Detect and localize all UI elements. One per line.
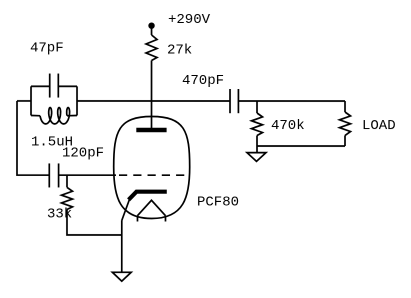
svg-text:470pF: 470pF — [182, 73, 224, 89]
svg-text:33k: 33k — [47, 207, 72, 223]
svg-text:120pF: 120pF — [62, 145, 104, 161]
svg-text:47pF: 47pF — [30, 41, 64, 57]
svg-text:27k: 27k — [167, 42, 192, 58]
svg-text:PCF80: PCF80 — [197, 194, 239, 210]
svg-text:LOAD: LOAD — [362, 118, 396, 134]
svg-text:+290V: +290V — [168, 12, 211, 28]
svg-text:470k: 470k — [271, 118, 305, 134]
